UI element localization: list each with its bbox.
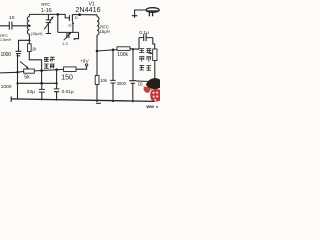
svg-text:0.1μ: 0.1μ [139, 30, 149, 36]
capacitor C2 arrow [64, 33, 71, 40]
node dot bus left [16, 82, 18, 84]
ground tick below rail [96, 102, 101, 104]
resistor R1 1k box [28, 44, 32, 52]
node A junction dot tank tap [57, 13, 60, 16]
headphone lead end bar [132, 16, 137, 18]
inductor RFC2 coil [96, 15, 98, 17]
wire source feedback horizontal [58, 31, 79, 33]
svg-text:0.01μ: 0.01μ [62, 89, 74, 95]
wire 9V rail pot-right to 150 [34, 69, 63, 71]
svg-text:100k: 100k [117, 52, 128, 58]
wire node to 100k [97, 50, 117, 51]
svg-text:ww: ww [145, 105, 154, 110]
capacitor C1 arrow [44, 17, 53, 29]
capacitor C-0.1u left vertical [138, 38, 140, 50]
wire tank top horizontal [29, 14, 69, 18]
transistor V1 gate bar [68, 15, 70, 21]
wire source network hook [74, 32, 78, 40]
node dot 1k-bottom junction [40, 69, 43, 72]
capacitor C-10u plates [129, 81, 136, 84]
svg-text:15μH: 15μH [100, 29, 110, 34]
svg-text:33μ: 33μ [27, 89, 35, 95]
potentiometer level wiper arrow [149, 52, 152, 54]
node junction dot RFC2 bottom [96, 50, 99, 53]
svg-text:1.5mH: 1.5mH [0, 38, 11, 42]
svg-text:3000: 3000 [117, 81, 127, 86]
node dot 0.01u mid [55, 82, 57, 84]
capacitor C-3000 plates [110, 80, 115, 83]
capacitor C-0.1u right vertical to pot [153, 38, 155, 49]
svg-text:D: D [75, 15, 78, 20]
wire C-1000 lower vertical [17, 54, 21, 99]
node dot 0.01u junction [55, 68, 58, 71]
svg-text:10k: 10k [100, 78, 108, 83]
resistor R-150 box [64, 67, 76, 72]
wire antenna input left [0, 25, 29, 27]
wire drain to RFC2 [80, 14, 97, 16]
svg-text:1000: 1000 [1, 52, 12, 58]
capacitor C-33u plates [39, 89, 45, 92]
watermark red seal [150, 89, 160, 101]
rail left end tick [10, 96, 12, 102]
wire 10u riser [132, 49, 134, 80]
wire L1 bottom to R1 [28, 34, 30, 44]
transistor V1 source lead [72, 21, 74, 32]
watermark red left patch [144, 87, 151, 93]
node junction dot decoupling [112, 49, 115, 52]
headphone earpiece body [146, 8, 159, 13]
svg-text:150: 150 [61, 75, 73, 82]
svg-text:+9V: +9V [80, 59, 89, 65]
wire 150 to +9V tap [76, 66, 87, 69]
resistor R-10k vertical wire top [96, 51, 98, 76]
ground rail bottom [11, 99, 154, 102]
capacitor C1 bottom stub and end bar [46, 23, 51, 34]
svg-text:(15μH): (15μH) [31, 32, 43, 36]
svg-text:G: G [68, 23, 71, 28]
potentiometer 5k wiper arrow [20, 61, 28, 67]
wire C-3000 to rail [112, 83, 114, 101]
transistor V1 source arrow [72, 23, 75, 25]
node dot 33u top [40, 82, 43, 85]
wire tank bottom to 1000pF [19, 40, 30, 51]
node dots on rail [96, 100, 98, 102]
resistor R-100k box [117, 47, 130, 51]
wire R-10k bottom to rail [96, 85, 98, 101]
node dot pot-left junction [16, 71, 18, 73]
node dot tank bottom [28, 39, 30, 41]
node drain junction dot [78, 13, 81, 16]
svg-text:10: 10 [9, 15, 15, 21]
wire R1 bottom jog [29, 52, 41, 84]
wire C-33u to rail [41, 92, 43, 99]
capacitor C-33u stem [41, 83, 43, 89]
transistor V1 drain lead [72, 14, 79, 16]
resistor R-10k box [95, 76, 99, 85]
svg-text:1000: 1000 [1, 84, 12, 90]
capacitor C-0.01u plates [54, 89, 60, 92]
wire pot bottom [154, 61, 156, 102]
headphone legs [149, 12, 152, 16]
inductor L1 tank coil [28, 14, 30, 16]
capacitor C2 trimmer 1-3 plates [67, 33, 69, 38]
wire 100k right [130, 48, 139, 50]
watermark black blob [146, 78, 160, 89]
potentiometer 5k box [24, 69, 35, 73]
capacitor C1 tuning 1-16 stem [47, 14, 49, 19]
svg-text:2N4416: 2N4416 [75, 5, 100, 14]
wire RFC2 bottom [96, 35, 98, 51]
node dot 10u riser top [132, 48, 134, 50]
wire bus y83 [18, 82, 57, 84]
node dot pot bottom [153, 80, 156, 83]
wire C-10u to rail [132, 84, 134, 102]
wire headphone left lead [135, 10, 146, 15]
text audio level adjust chinese [139, 49, 151, 71]
capacitor C-0.1u body [139, 37, 153, 39]
wire pot-left from page edge [0, 71, 24, 73]
text regeneration control chinese [44, 57, 55, 68]
capacitor C-0.01u stem [56, 70, 58, 89]
capacitor C-in 10pF plates [9, 22, 12, 30]
svg-text:10: 10 [138, 82, 143, 87]
transistor V1 channel bar [71, 14, 73, 21]
capacitor C1 plates [46, 20, 51, 23]
svg-text:RFC: RFC [41, 2, 50, 7]
potentiometer level box [153, 49, 157, 61]
svg-text:5k: 5k [24, 75, 30, 81]
svg-text:1-3: 1-3 [62, 41, 68, 46]
svg-text:1-16: 1-16 [41, 8, 52, 14]
wire 10u to pot node [136, 80, 154, 83]
+9V terminal [85, 64, 87, 66]
capacitor C-3000 wire from node [112, 50, 114, 80]
capacitor C-1000 upper plates [16, 51, 22, 53]
wire tank tap drop [57, 14, 59, 32]
wire C-0.01u to rail [56, 92, 58, 100]
node junction dot input-coil [28, 25, 30, 27]
